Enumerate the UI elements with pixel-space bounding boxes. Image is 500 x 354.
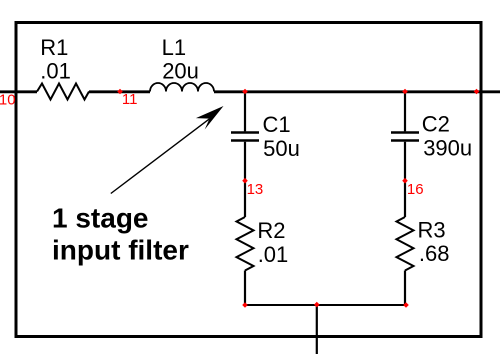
svg-text:L1: L1 [162, 35, 186, 60]
svg-text:.01: .01 [40, 58, 71, 83]
wire R3 to bottom rail [404, 271, 406, 306]
resistor R1 [37, 84, 89, 100]
junction dot at C2 top [402, 89, 408, 95]
ground stub wire [316, 305, 318, 354]
svg-text:16: 16 [407, 181, 424, 198]
svg-text:50u: 50u [263, 136, 300, 161]
capacitor C1 [231, 133, 259, 141]
junction dot bottom middle [314, 302, 320, 308]
svg-text:R2: R2 [257, 218, 285, 243]
junction dot bottom right [403, 302, 409, 308]
svg-text:.01: .01 [258, 242, 289, 267]
junction dot at right border [474, 89, 480, 95]
node 11 dot [117, 89, 123, 95]
svg-text:390u: 390u [423, 135, 472, 160]
svg-text:10: 10 [0, 91, 16, 108]
wire C2 to R3 [404, 142, 406, 217]
wire input from left edge to R1 [0, 90, 37, 93]
svg-text:C1: C1 [263, 112, 291, 137]
svg-text:1 stage: 1 stage [52, 203, 149, 234]
svg-text:R1: R1 [40, 35, 68, 60]
svg-text:11: 11 [122, 91, 138, 108]
resistor R3 [397, 217, 414, 271]
wire L1 to right border [214, 90, 500, 93]
wire C1 to R2 [244, 142, 246, 217]
resistor R2 [237, 217, 254, 271]
wire R1 to L1 [89, 90, 150, 93]
node 16 dot [402, 178, 408, 184]
annotation arrow shaft [111, 119, 210, 194]
bottom rail wire [245, 304, 406, 306]
svg-text:C2: C2 [422, 112, 450, 137]
inductor L1 [150, 83, 214, 92]
svg-text:.68: .68 [419, 241, 450, 266]
svg-text:input filter: input filter [52, 235, 189, 266]
svg-text:R3: R3 [418, 217, 446, 242]
svg-text:20u: 20u [162, 58, 199, 83]
annotation arrowhead [196, 106, 224, 130]
junction dot bottom left [242, 302, 248, 308]
svg-text:13: 13 [247, 181, 264, 198]
capacitor C2 [391, 133, 419, 141]
junction dot at C1 top [242, 89, 248, 95]
node 13 dot [242, 178, 248, 184]
wire top of C1 [244, 91, 246, 131]
wire top of C2 [404, 91, 406, 131]
wire R2 to bottom rail [244, 271, 246, 306]
